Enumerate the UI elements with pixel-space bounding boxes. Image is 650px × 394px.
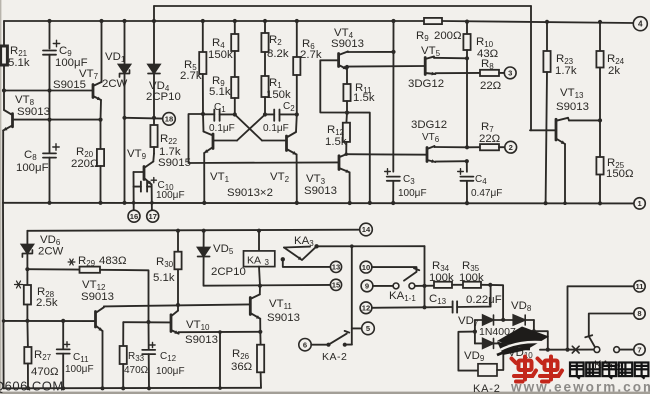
label R10	[476, 36, 499, 60]
label VD6	[38, 234, 64, 258]
label VT7	[53, 68, 99, 91]
node R28 / base wire	[25, 319, 29, 323]
svg-text:17: 17	[148, 212, 156, 221]
svg-text:9: 9	[365, 282, 369, 291]
diode VD9	[483, 338, 494, 348]
svg-text:2.7k: 2.7k	[180, 70, 202, 82]
star mark R28	[15, 281, 23, 288]
label S9013x2	[227, 187, 273, 199]
svg-text:2CW: 2CW	[102, 78, 128, 90]
node VT6 emitter / C4	[465, 159, 469, 163]
terminal 3	[504, 67, 516, 79]
node KA3 coil top	[257, 229, 261, 233]
node VD5 top	[202, 229, 206, 233]
wire VT7 collector to rail	[99, 19, 103, 82]
node VT2 emitter ground	[295, 201, 299, 205]
node R20 ground	[98, 201, 102, 205]
svg-text:16: 16	[130, 212, 138, 221]
wire VT6 collector	[434, 146, 467, 147]
node VT3 emitter ground	[348, 201, 352, 205]
svg-text:13: 13	[332, 263, 340, 272]
svg-text:4: 4	[638, 20, 643, 29]
transistor VT6	[427, 146, 435, 163]
relay coil KA-2	[478, 364, 497, 376]
node C4 ground	[465, 201, 469, 205]
svg-text:100μF: 100μF	[156, 190, 185, 201]
label KA1-2	[594, 359, 621, 372]
svg-text:220Ω: 220Ω	[71, 158, 99, 170]
resistor R30	[174, 231, 181, 305]
label KA-2 contact	[322, 351, 347, 363]
wire VT13 base	[530, 129, 556, 131]
label C8	[16, 149, 49, 174]
wire emitter col to C4	[466, 161, 468, 172]
wire to terminal 8	[589, 314, 634, 337]
relay contact KA1-2	[585, 335, 619, 352]
node R4 top	[233, 19, 237, 23]
label R21	[8, 45, 30, 69]
svg-text:5.1k: 5.1k	[8, 57, 30, 69]
resistor R10 (43ohm)	[463, 22, 470, 59]
wire to terminal 5	[352, 327, 362, 329]
terminal 17	[147, 210, 159, 222]
node bridge bottom mid	[501, 341, 505, 345]
svg-text:S9013×2: S9013×2	[227, 187, 273, 199]
terminal 6	[299, 339, 311, 351]
wire bridge left side	[474, 320, 476, 343]
svg-text:15: 15	[332, 281, 341, 290]
watermark Q606	[0, 379, 64, 394]
node C12 ground	[147, 386, 151, 390]
resistor R2	[261, 21, 268, 76]
label R12	[325, 124, 347, 148]
x mark	[572, 346, 579, 353]
wire VT5 base	[347, 66, 425, 67]
wire terminal-18	[125, 117, 163, 120]
svg-text:36Ω: 36Ω	[231, 361, 253, 373]
resistor R33	[120, 322, 127, 388]
resistor R35 (100k)	[463, 282, 490, 288]
wire emitter tap to ground	[218, 330, 222, 390]
capacitor C1 (0.1uF)	[203, 110, 235, 121]
wire VT10 collector	[177, 305, 179, 311]
wire bridge feed	[490, 285, 503, 320]
wire C1 to VT2 base (cross)	[235, 115, 286, 141]
node VD4 top	[152, 19, 156, 23]
svg-text:11: 11	[635, 282, 644, 291]
wire VT13 collector	[568, 118, 600, 121]
svg-text:150k: 150k	[208, 49, 233, 61]
label C1	[209, 102, 235, 134]
label R4	[208, 37, 233, 61]
svg-text:12: 12	[362, 304, 370, 313]
label C12	[156, 351, 185, 377]
terminal 18	[163, 113, 176, 126]
wire VT1 collector	[202, 114, 205, 132]
wire VT9 base corner down	[133, 172, 135, 210]
resistor R4	[231, 21, 238, 77]
wire 10 to blade	[372, 267, 417, 272]
label VT3	[304, 173, 337, 197]
diode VD4 (2CP10)	[148, 6, 160, 118]
svg-text:10: 10	[362, 263, 370, 272]
label R11	[353, 82, 375, 104]
node bridge left mid	[473, 330, 477, 334]
node R10 top	[465, 20, 469, 24]
svg-text:14: 14	[362, 225, 371, 234]
label VD5	[211, 243, 246, 278]
label KA3 contact	[294, 235, 314, 248]
label VD1	[102, 51, 128, 90]
svg-text:2CW: 2CW	[38, 246, 64, 258]
wire VT10 emitter rail	[179, 332, 261, 334]
relay contact KA-2	[326, 331, 349, 347]
node C11 ground	[61, 386, 65, 390]
svg-text:www.eeworm.com: www.eeworm.com	[510, 380, 650, 394]
svg-text:S9013: S9013	[185, 334, 218, 346]
label KA1-1	[389, 290, 416, 303]
wire VT8 collector	[3, 91, 5, 111]
wire top rail A (+V inner rail)	[154, 6, 531, 130]
node C9 top	[47, 19, 51, 23]
svg-text:6: 6	[303, 340, 307, 349]
label KA-2 coil	[473, 383, 501, 394]
node base col / rail	[132, 201, 136, 205]
svg-text:S9015: S9015	[158, 157, 191, 169]
svg-text:22Ω: 22Ω	[479, 133, 501, 145]
wire bridge bottom row	[475, 342, 534, 344]
wire VT3 emitter	[349, 172, 351, 203]
svg-text:KA: KA	[247, 255, 261, 267]
capacitor C12 (100uF)	[142, 322, 155, 388]
node rail B drop	[391, 19, 395, 23]
node R10 bottom	[465, 56, 469, 60]
capacitor C3 (100uF)	[385, 169, 400, 203]
terminal 10	[360, 261, 372, 273]
label R20	[71, 146, 99, 170]
node C9 bottom	[47, 88, 51, 92]
label VT2	[270, 171, 290, 184]
node C2 left	[263, 112, 267, 116]
svg-text:7: 7	[637, 345, 641, 354]
label VD10	[508, 347, 533, 360]
wire VT7 emitter to R20 node	[100, 100, 103, 120]
wire 12 to C13	[372, 306, 425, 309]
resistor R21	[1, 21, 8, 91]
label VT10	[185, 319, 218, 346]
terminal 13	[330, 261, 341, 272]
node R23 ground	[544, 201, 548, 205]
terminal 16	[128, 210, 140, 222]
node C8 top	[47, 118, 51, 122]
svg-text:5.1k: 5.1k	[209, 86, 231, 98]
svg-text:483Ω: 483Ω	[99, 255, 127, 267]
wire contact to 7	[620, 349, 634, 351]
svg-text:S9013: S9013	[267, 312, 300, 324]
wire R10 column down	[466, 58, 468, 147]
resistor R26 (36ohm)	[257, 332, 264, 388]
label VD9	[464, 350, 485, 363]
terminal 4	[633, 17, 647, 31]
svg-text:1.5k: 1.5k	[353, 92, 375, 104]
resistor R34 (100k)	[434, 282, 463, 288]
svg-text:1.7k: 1.7k	[555, 65, 577, 77]
wire VT12 emitter	[102, 331, 104, 388]
svg-text:2.7k: 2.7k	[300, 49, 322, 61]
capacitor C13 (0.22uF)	[425, 285, 491, 313]
label R34	[429, 260, 454, 284]
node VT12 emitter ground	[100, 386, 104, 390]
label VT1	[210, 171, 230, 184]
svg-text:Q606.COM: Q606.COM	[0, 379, 64, 394]
svg-text:100k: 100k	[459, 272, 484, 284]
terminal 2	[505, 141, 517, 153]
wire VT4 collector	[348, 51, 394, 54]
wire top rail B (+V rail)	[4, 21, 634, 23]
label R8	[480, 58, 502, 92]
label R35	[459, 260, 484, 284]
label R27	[31, 349, 59, 378]
transistor VT11	[250, 294, 260, 318]
label R25	[606, 157, 634, 180]
node R6 top	[295, 19, 299, 23]
node C1 right	[233, 112, 237, 116]
wire VT9 emitter down	[151, 185, 153, 211]
transistor VT4	[339, 52, 348, 70]
transistor VT8	[3, 110, 12, 131]
resistor R7 (22ohm)	[467, 144, 505, 150]
svg-text:KA-2: KA-2	[322, 351, 347, 363]
resistor R9 (200&#937;) in rail	[424, 18, 442, 24]
node R29 / VT10 base	[146, 320, 150, 324]
capacitor C4 (0.47uF)	[458, 169, 474, 203]
terminal 1	[634, 198, 645, 209]
wire VT11 emitter	[259, 319, 261, 332]
transistor VT10	[171, 311, 179, 334]
label 1N4007x4	[479, 326, 528, 338]
node R27 ground	[26, 386, 30, 390]
capacitor C8 (100uF)	[43, 120, 59, 203]
wire KA1-1 net vertical	[424, 246, 426, 307]
svg-text:22Ω: 22Ω	[480, 80, 502, 92]
label C4	[471, 174, 502, 199]
node tap to KA-2 contact	[350, 244, 354, 248]
transistor VT2	[287, 132, 297, 155]
node R33 ground	[121, 386, 125, 390]
node R11 bottom	[345, 111, 349, 115]
svg-text:100μF: 100μF	[156, 366, 185, 377]
label VT6	[411, 119, 447, 144]
svg-text:8: 8	[637, 309, 641, 318]
svg-text:0.1μF: 0.1μF	[263, 123, 289, 134]
node VD1 / terminal-18 wire	[122, 116, 126, 120]
node R34 left	[422, 284, 426, 288]
label VD4	[146, 80, 181, 103]
wire VT9 base	[134, 171, 144, 173]
transistor VT9	[144, 162, 153, 185]
terminal 11	[634, 281, 645, 292]
label VD8	[511, 300, 532, 313]
node R30 / VT10 collector / VT11 base	[176, 303, 180, 307]
label R33	[124, 351, 149, 376]
svg-text:0.1μF: 0.1μF	[209, 123, 235, 134]
label C2	[263, 101, 295, 134]
resistor R22	[150, 118, 157, 154]
watermark red logo chongchong	[512, 357, 563, 382]
diode VD10	[513, 338, 526, 348]
wire VT6 emitter	[435, 160, 466, 162]
diode VD6 (2CW zener)	[21, 231, 33, 269]
label R23	[555, 53, 577, 77]
wire VT8 emitter to bottom rail	[2, 131, 4, 203]
transistor VT7	[93, 82, 102, 100]
label R9 value	[416, 30, 462, 43]
node C3 ground	[391, 201, 395, 205]
svg-text:8.2k: 8.2k	[267, 48, 289, 60]
svg-text:2k: 2k	[608, 65, 620, 77]
label VT8	[15, 94, 50, 118]
label R22	[158, 133, 191, 169]
svg-text:100μF: 100μF	[398, 188, 427, 199]
resistor R6	[293, 21, 300, 115]
wire VT1 base	[213, 115, 265, 141]
node R25 ground	[598, 201, 602, 205]
terminal 5	[362, 322, 375, 335]
node R5/C1/VT1 collector	[201, 112, 205, 116]
node R23 top	[545, 20, 549, 24]
transistor VT1	[204, 132, 214, 154]
capacitor C2 (0.1uF)	[265, 110, 297, 121]
wire fixed contact to 13	[283, 259, 331, 267]
node R11-chain ground	[368, 201, 372, 205]
node VT4 collector / rail drop	[391, 50, 395, 54]
relay contact KA3	[284, 246, 317, 260]
svg-text:3: 3	[265, 258, 270, 267]
resistor R5	[199, 21, 206, 114]
svg-text:2.5k: 2.5k	[36, 297, 58, 309]
wire VT1 emitter	[203, 153, 205, 203]
node R2 top	[263, 19, 267, 23]
label VT13	[556, 87, 589, 113]
node R26 top	[258, 330, 262, 334]
wire DC output	[534, 331, 548, 349]
svg-text:470Ω: 470Ω	[31, 366, 59, 378]
wire VT12 base net	[2, 319, 95, 323]
label VT4	[331, 27, 364, 50]
svg-text:150Ω: 150Ω	[606, 168, 634, 180]
terminal 15	[330, 279, 341, 290]
label R26	[231, 348, 253, 373]
node VD1 top	[122, 19, 126, 23]
wire VT10 base	[123, 321, 170, 323]
wire VT3-base tie corner	[189, 114, 339, 163]
watermark site name glyphs	[570, 363, 648, 379]
svg-text:S9013: S9013	[304, 185, 337, 197]
svg-text:0.22μF: 0.22μF	[466, 294, 502, 306]
label R5	[180, 59, 202, 82]
wire from 6	[311, 344, 327, 346]
label C9	[55, 45, 88, 69]
node C13 left	[422, 305, 426, 309]
label C3	[398, 174, 427, 199]
label R7	[479, 121, 501, 145]
node output / coil	[546, 348, 550, 352]
label VT9	[127, 148, 147, 161]
node R24 top	[598, 20, 602, 24]
label R9b	[209, 75, 231, 98]
terminal 9	[361, 280, 373, 292]
resistor R24	[596, 22, 603, 120]
svg-text:5.1k: 5.1k	[153, 272, 175, 284]
wire left vertical	[2, 203, 5, 388]
label R28	[36, 286, 58, 309]
wire tap down	[347, 246, 352, 344]
svg-text:2CP10: 2CP10	[146, 91, 181, 103]
node VD4 bottom	[152, 116, 156, 120]
node emitter col / rail	[150, 201, 154, 205]
wire VT8 base rail	[14, 119, 102, 121]
wire VT4 base L-net	[320, 60, 370, 203]
watermark graduation-cap logo	[497, 327, 549, 356]
svg-text:2: 2	[509, 143, 513, 152]
node bridge right mid	[532, 329, 536, 333]
wire VT11 collector	[259, 286, 261, 295]
resistor R23	[543, 22, 550, 203]
scan edge shading	[0, 392, 650, 394]
label C11	[65, 352, 94, 375]
wire VT9 collector	[152, 154, 155, 162]
node C8 ground	[47, 201, 51, 205]
resistor R25	[596, 120, 603, 203]
wire VT7 base	[4, 90, 92, 92]
wire bottom rail (top block)	[3, 202, 634, 205]
relay coil KA3	[244, 231, 275, 286]
wire bridge to coil left	[458, 332, 478, 371]
wire KA3 pivot net	[317, 245, 425, 247]
node VT1 emitter ground	[202, 201, 206, 205]
label R1	[266, 77, 291, 101]
terminal 7	[634, 344, 645, 355]
terminal 14	[360, 223, 373, 236]
node output / 11	[565, 348, 569, 352]
resistor R11	[343, 67, 350, 113]
relay contact KA1-1	[393, 268, 419, 289]
wire bottom rail (bottom block)	[4, 387, 261, 390]
wire coil right to bridge	[497, 343, 503, 370]
node VT6 collector / R7	[465, 145, 469, 149]
node R35 / C13 right	[488, 283, 492, 287]
wire VT2 emitter	[296, 155, 298, 203]
svg-text:18: 18	[165, 115, 173, 124]
resistor R28	[24, 269, 31, 321]
wire VT6 base	[346, 153, 426, 156]
label VT11	[267, 298, 300, 324]
node bridge top mid	[501, 318, 505, 322]
resistor R9b (5.1k)	[231, 77, 238, 115]
terminal 8	[634, 308, 645, 319]
wire VT13 emitter	[563, 144, 567, 205]
node KA3 fixed contact	[281, 257, 285, 261]
watermark url	[510, 380, 650, 394]
resistor R29 (483ohm)	[27, 267, 148, 322]
node VD6 / R29	[25, 267, 29, 271]
resistor R27	[24, 321, 31, 388]
star mark R29	[68, 259, 75, 265]
wire rail drop to C3	[392, 21, 394, 172]
wire VT5 emitter / R8	[435, 72, 480, 74]
svg-text:200Ω: 200Ω	[434, 30, 462, 42]
label VT12	[81, 279, 114, 303]
